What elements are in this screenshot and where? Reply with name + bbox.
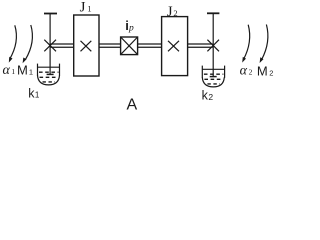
support T-cap left: [44, 13, 57, 15]
damper k2 liquid dashes row 2: [204, 78, 223, 80]
damper k2 liquid surface: [202, 68, 224, 70]
label J1: [80, 0, 92, 16]
support rod left (vertical through bearing into damper): [49, 14, 51, 75]
rotation arrow arc alpha1: [9, 25, 16, 59]
arrowhead alpha2: [242, 57, 246, 63]
arrowhead alpha1: [9, 57, 13, 63]
svg-text:α: α: [240, 63, 248, 78]
damper k1 piston plate: [47, 73, 54, 75]
svg-text:M: M: [17, 62, 28, 77]
label M2: [257, 64, 273, 79]
bearing X right: [207, 40, 219, 52]
damper k1 liquid dashes row 2: [40, 76, 59, 78]
label alpha2: [240, 63, 253, 78]
inertia disc J2 box: [162, 17, 188, 76]
svg-text:J: J: [80, 0, 86, 16]
damper k1 cup walls: [37, 64, 39, 76]
bearing X left: [44, 40, 56, 52]
damper k2 cup bottom: [202, 77, 224, 87]
svg-text:2: 2: [173, 8, 177, 18]
svg-text:2: 2: [269, 69, 273, 78]
support rod right (vertical through bearing into damper): [212, 13, 214, 77]
svg-text:2: 2: [208, 92, 213, 102]
damper k2 liquid dashes row 3: [207, 83, 220, 85]
damper k2 liquid dashes row 1: [204, 73, 224, 75]
damper k1 cup bottom: [38, 75, 60, 85]
gear ip cross diagonals: [121, 37, 138, 55]
svg-text:2: 2: [249, 68, 253, 77]
damper k1 liquid surface: [38, 66, 60, 68]
gear ip box: [121, 37, 138, 55]
shaft segment 4 (J2 to right bearing): [188, 44, 213, 47]
label alpha1: [3, 63, 16, 78]
svg-text:1: 1: [87, 4, 91, 14]
svg-text:1: 1: [11, 67, 15, 76]
rotation arrow arc M1: [25, 25, 32, 60]
damper k2 cup walls: [201, 66, 203, 78]
label k2: [202, 88, 214, 102]
label ip: [125, 18, 134, 33]
arrowhead M1: [23, 58, 27, 64]
label J2: [167, 4, 178, 20]
rotation arrow arc alpha2: [243, 25, 249, 60]
shaft segment 2 (J1 to gear ip): [99, 44, 121, 47]
svg-text:A: A: [127, 96, 138, 112]
bearing X inside J1: [81, 41, 92, 52]
damper k1 liquid dashes row 1: [39, 71, 59, 73]
svg-text:α: α: [3, 63, 11, 78]
shaft segment 3 (gear ip to J2): [138, 44, 162, 47]
label M1: [17, 62, 33, 77]
shaft segment 1 (left bearing to J1): [51, 44, 74, 47]
svg-text:1: 1: [35, 91, 40, 100]
svg-text:M: M: [257, 64, 268, 79]
svg-text:1: 1: [29, 67, 33, 76]
svg-text:J: J: [167, 4, 173, 20]
bearing X inside J2: [168, 41, 179, 52]
support T-cap right: [207, 12, 219, 14]
damper k2 piston plate: [210, 76, 217, 78]
arrowhead M2: [260, 57, 264, 63]
damper k1 liquid dashes row 3: [43, 81, 56, 83]
inertia disc J1 box: [74, 15, 99, 76]
label k1: [28, 86, 40, 100]
rotation arrow arc M2: [262, 25, 268, 60]
svg-text:p: p: [128, 24, 134, 34]
